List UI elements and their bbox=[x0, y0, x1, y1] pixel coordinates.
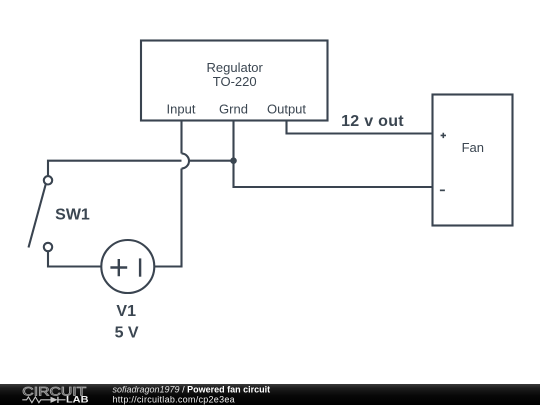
svg-text:Regulator: Regulator bbox=[207, 60, 264, 75]
switch SW1 bbox=[29, 176, 53, 251]
fan minus terminal label bbox=[440, 190, 445, 192]
svg-text:Grnd: Grnd bbox=[219, 101, 248, 116]
fan box bbox=[433, 95, 513, 226]
regulator box U1 bbox=[141, 41, 328, 121]
svg-text:SW1: SW1 bbox=[55, 207, 90, 224]
svg-text:sofiadragon1979 / Powered fan: sofiadragon1979 / Powered fan circuit bbox=[113, 384, 271, 394]
voltage source V1 bbox=[101, 240, 154, 293]
svg-text:LAB: LAB bbox=[66, 395, 89, 405]
svg-text:Fan: Fan bbox=[462, 140, 484, 155]
wire switch top to grnd node bbox=[48, 161, 234, 177]
wire grnd pin to fan minus bbox=[234, 121, 433, 188]
svg-text:12 v out: 12 v out bbox=[341, 113, 404, 130]
wire output pin to fan plus bbox=[287, 121, 433, 134]
svg-text:V1: V1 bbox=[116, 303, 136, 320]
junction dot grnd node bbox=[230, 157, 237, 164]
svg-text:Input: Input bbox=[167, 101, 196, 116]
svg-text:TO-220: TO-220 bbox=[213, 74, 257, 89]
svg-text:5 V: 5 V bbox=[115, 325, 139, 342]
svg-text:Output: Output bbox=[267, 101, 306, 116]
circuitlab logo wire: resistor + diode bbox=[22, 397, 65, 403]
svg-text:http://circuitlab.com/cp2e3ea: http://circuitlab.com/cp2e3ea bbox=[113, 394, 235, 404]
wire input pin to V1 right terminal (hop over switch wire) bbox=[180, 121, 182, 154]
fan plus terminal label bbox=[441, 133, 446, 138]
wire switch bottom to V1 left terminal bbox=[48, 251, 101, 266]
